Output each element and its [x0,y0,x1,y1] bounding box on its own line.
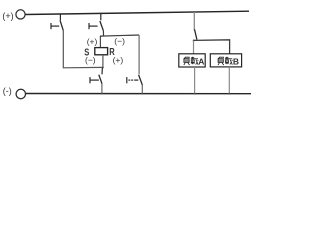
svg-text:(-): (-) [3,86,12,96]
node load A bus junction [194,93,196,95]
wire right rail [138,35,140,74]
glyph 載 [191,57,199,65]
node coil bottom junction [102,67,104,69]
node contact junction [193,39,195,41]
terminal (-) [16,89,25,98]
glyph 負 [184,57,190,65]
load B box [210,54,241,67]
wire PB3 to bottom bus [101,84,103,94]
pushbutton PB2 (top-middle) [89,13,103,31]
wire load A bottom lead [194,67,196,94]
pushbutton PB3 (bottom-middle) [90,68,102,84]
wire load B bottom lead [228,67,230,94]
label 負載A (load A) [184,57,198,65]
terminal (+) [16,10,25,19]
wire contact output to load B corner [193,40,229,54]
wire branch to right rail [100,35,139,36]
wire PB2 to branch node [102,31,104,36]
glyph 負 [218,57,224,65]
svg-text:(−): (−) [85,55,96,65]
svg-text:B: B [233,56,239,66]
glyph 載 [225,57,233,65]
wire bottom bus [26,93,251,95]
pushbutton PB1 (set, top-left) [51,14,63,31]
svg-text:A: A [198,56,204,66]
label 負載B (load B) [218,57,232,65]
wire PB4 to bottom bus [141,85,143,94]
svg-text:(−): (−) [114,36,125,46]
node PB1 bus tap [60,13,62,15]
wire left rail [63,31,103,68]
svg-text:(+): (+) [87,37,98,47]
wire coil bottom lead [102,55,104,68]
load A box [179,54,205,67]
node contact bus tap [194,11,196,13]
wire load branch drop [193,12,195,30]
relay coil K1 (latching S/R) [95,48,108,55]
wire load A top lead [193,41,195,54]
pushbutton PB4 (reset, bottom-right, linked) [127,75,143,85]
wire coil top lead [99,36,101,48]
node load B bus junction [228,93,230,95]
node branch junction [100,35,102,37]
node PB4 bus junction [141,93,143,95]
svg-text:(+): (+) [2,11,13,21]
node PB2 bus tap [100,13,102,15]
wire top bus [25,11,249,14]
node PB3 bus junction [101,93,103,95]
svg-text:(+): (+) [113,55,124,65]
relay contact K1 (transfer) [195,29,197,39]
